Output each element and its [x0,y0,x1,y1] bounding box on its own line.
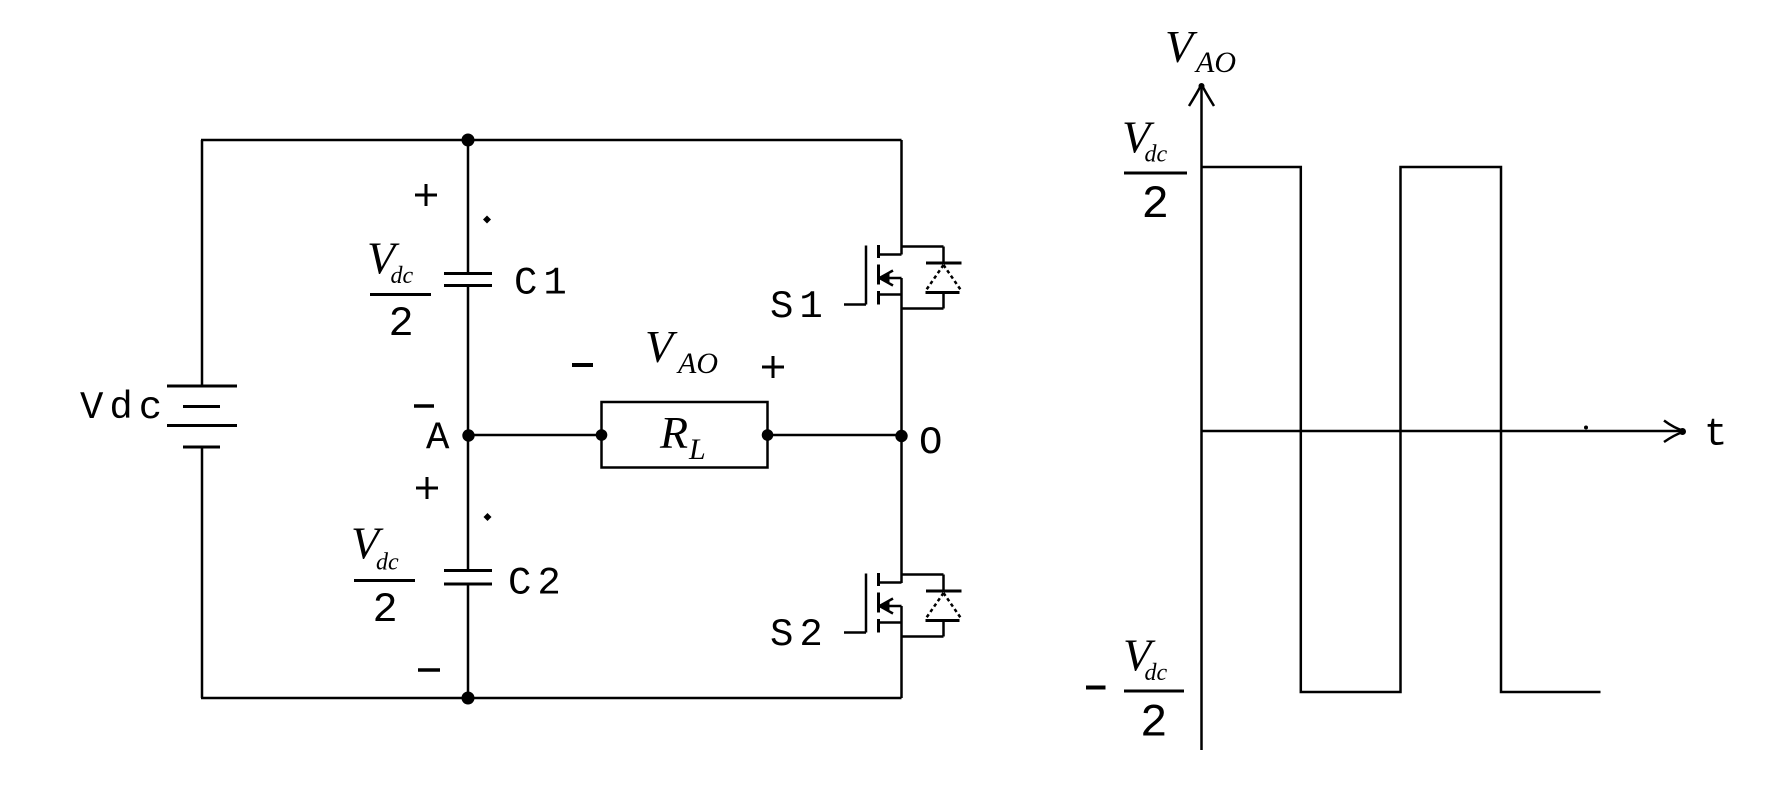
capacitor C2 [444,571,492,585]
capacitor C1 [444,274,492,286]
svg-text:2: 2 [1140,698,1168,750]
junction dot bottom [462,692,475,705]
label O [919,421,942,465]
label C2 [508,562,567,606]
label Vdc/2 for C1 [367,233,414,349]
wire center leg upper [467,140,470,273]
plus right of VAO [762,356,784,378]
node O dot [895,430,907,442]
node dot load right [762,429,774,441]
horizontal axis arrowhead [1664,421,1684,443]
svg-text:Vdc: Vdc [80,386,168,430]
svg-text:O: O [919,421,942,465]
svg-text:L: L [688,433,706,466]
wire A to load [468,434,602,437]
svg-text:2: 2 [389,300,414,348]
transistor S1 [844,245,962,309]
square wave trace [1202,167,1601,692]
label -Vdc/2 negative [1086,686,1106,690]
svg-text:dc: dc [1145,660,1168,686]
S1 gate arrow fill [879,273,890,283]
svg-text:C2: C2 [508,562,567,606]
svg-text:AO: AO [676,347,718,380]
svg-text:2: 2 [373,586,398,634]
svg-text:A: A [426,417,450,461]
wire left upper [201,140,204,386]
wire bottom rail [201,697,902,700]
battery Vdc [167,386,237,447]
label VAO [645,321,718,380]
wire top rail [201,139,902,142]
transistor S2 [844,573,962,637]
svg-text:dc: dc [376,550,399,576]
svg-text:2: 2 [1142,179,1170,231]
node A dot [462,429,474,441]
svg-text:R: R [659,407,688,458]
polarity mark near C2 [484,513,492,521]
label C1 [514,262,573,306]
label Vdc/2 for C2 [351,518,399,635]
svg-text:S2: S2 [770,613,829,657]
label VAO axis [1165,21,1236,79]
vertical axis arrowhead [1189,85,1214,107]
plus below node A [416,477,438,499]
label Vdc [80,386,168,430]
wire center leg mid [467,286,470,571]
resistor RL box [602,402,768,468]
svg-text:dc: dc [1145,142,1168,168]
label S2 [770,613,829,657]
wire load to O [768,434,902,437]
svg-text:V: V [645,321,678,372]
polarity mark near C1 [483,216,491,224]
S2 gate arrow fill [879,601,890,611]
minus below C2 [418,668,440,672]
wire right upper [900,140,903,255]
label Vdc/2 positive [1122,112,1169,232]
wire left lower [201,447,204,698]
junction dot top [462,134,475,147]
wire center leg lower [467,584,470,698]
svg-text:V: V [1165,21,1198,72]
label A [426,417,450,461]
minus above node A [414,404,434,408]
waveform horizontal axis [1202,430,1686,433]
speck on axis [1584,426,1588,430]
wire right lower [900,606,903,698]
svg-text:AO: AO [1194,46,1236,79]
svg-text:t: t [1704,413,1727,457]
svg-text:C1: C1 [514,262,573,306]
waveform vertical axis [1200,84,1203,750]
label S1 [770,285,829,329]
minus left of VAO [572,363,593,367]
label t [1704,413,1727,457]
plus above C1 [415,184,437,206]
svg-text:S1: S1 [770,285,829,329]
wire right mid [900,278,903,583]
node dot load left [596,429,608,441]
label RL [659,407,706,466]
svg-text:dc: dc [391,263,414,289]
